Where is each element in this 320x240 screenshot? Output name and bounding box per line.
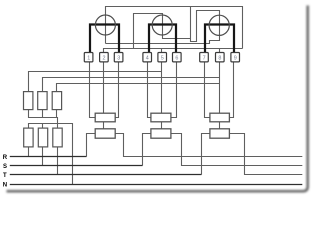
link block K3 (column 3 upper) bbox=[210, 113, 230, 122]
terminal 3 bbox=[114, 53, 123, 62]
wire: t8 drop to link-block 3 top bbox=[219, 62, 221, 113]
terminal 6 bbox=[173, 53, 182, 62]
svg-text:2: 2 bbox=[103, 55, 106, 61]
terminal 2 bbox=[100, 53, 109, 62]
wire: long horizontal y=43.5 from circle1 to staircase under circle3 bbox=[106, 35, 220, 43]
wire: load1 left lead to R bus end bbox=[87, 134, 96, 157]
wire: vertical through circle 1 down to long horizontal y=43.5 bbox=[105, 15, 107, 43]
element 1 current loop t1-t3 bbox=[90, 25, 119, 53]
wire: vertical through circle 3 up to y=10.5 link bbox=[191, 7, 220, 42]
load block L2 (column 2 lower) bbox=[151, 129, 171, 138]
wire: vertical through circle 2 up to y=13.5, left, and down to y48 line bbox=[134, 14, 163, 49]
svg-text:3: 3 bbox=[117, 55, 120, 61]
bus S bbox=[10, 165, 143, 167]
wire: t4 drop to link-block 2 left bbox=[148, 62, 151, 118]
svg-text:4: 4 bbox=[146, 55, 149, 61]
terminal 5 bbox=[158, 53, 167, 62]
svg-text:6: 6 bbox=[175, 55, 178, 61]
wire: fan line F2 from fuse A2 to t8 drop bbox=[43, 78, 220, 92]
wire: t6 drop to link-block 2 right bbox=[171, 62, 177, 118]
wire: t3 drop to link-block 1 right bbox=[115, 62, 118, 118]
wire: t2 drop to link-block 1 top bbox=[103, 62, 105, 113]
wire: load2 left lead to S bus end bbox=[143, 134, 151, 166]
wire: lower fuse bottom stubs to R S T buses bbox=[28, 147, 30, 157]
terminal 9 bbox=[231, 53, 240, 62]
terminal 1 bbox=[84, 53, 93, 62]
bus N bbox=[10, 184, 303, 186]
wire: top bus y=6 from circle1 top to right drop bbox=[106, 7, 243, 49]
measuring element M2 bbox=[152, 15, 172, 35]
element 3 current loop t7-t9 bbox=[205, 25, 234, 53]
wire: fuse bottoms bus1 y=117.5 bbox=[29, 110, 58, 124]
wire: load2 right lead down and east at S level bbox=[171, 134, 302, 166]
wire: link vertical column 3 bbox=[219, 122, 221, 129]
element 2 current loop t4-t6 bbox=[149, 25, 176, 53]
wire: t5 stub to y48 line bbox=[161, 49, 163, 53]
wire: circle2 bottom y=38.5 link to the x=190.5 drop bbox=[163, 35, 191, 39]
wire: t8 stub to y48 line bbox=[219, 49, 221, 53]
svg-text:7: 7 bbox=[203, 55, 206, 61]
fuse F2 (upper row) bbox=[38, 92, 47, 110]
wire: t5 drop to link-block 2 top bbox=[161, 62, 163, 113]
wire: link vertical column 2 bbox=[161, 122, 163, 129]
link block K2 (column 2 upper) bbox=[151, 113, 171, 122]
measuring element M1 bbox=[95, 15, 115, 35]
load block L1 (column 1 lower) bbox=[95, 129, 115, 138]
svg-text:R: R bbox=[3, 155, 8, 161]
fuse F6 (lower row) bbox=[53, 128, 62, 147]
svg-text:5: 5 bbox=[161, 55, 164, 61]
fuse F3 (upper row) bbox=[52, 92, 61, 110]
bus T bbox=[10, 174, 202, 176]
wire: link vertical block1-block2 column 1 bbox=[103, 122, 105, 129]
svg-text:8: 8 bbox=[218, 55, 221, 61]
measuring element M3 bbox=[209, 15, 229, 35]
wire: y=48.5 horizontal from t2 to right drop bbox=[104, 49, 243, 53]
terminal 4 bbox=[143, 53, 152, 62]
link block K1 (column 1 upper) bbox=[95, 113, 115, 122]
wire: t9 drop to link-block 3 right bbox=[229, 62, 233, 118]
bus R bbox=[10, 156, 87, 158]
fuse F4 (lower row) bbox=[24, 128, 33, 147]
wire: fan line F1 from fuse A1 to t5 drop bbox=[29, 72, 162, 92]
terminal 8 bbox=[216, 53, 225, 62]
terminal 7 bbox=[200, 53, 209, 62]
wire: fan line F3 from fuse A3 to t8 drop bbox=[57, 84, 220, 92]
fuse F5 (lower row) bbox=[38, 128, 47, 147]
svg-text:S: S bbox=[3, 164, 7, 170]
svg-text:1: 1 bbox=[87, 55, 90, 61]
wire: load3 left lead to T bus end bbox=[202, 134, 210, 175]
svg-text:N: N bbox=[3, 182, 7, 188]
fuse F1 (upper row) bbox=[24, 92, 33, 110]
image frame border (right + bottom shadow) bbox=[7, 6, 308, 192]
wire: load1 right lead down and east at R level bbox=[115, 134, 302, 157]
load block L3 (column 3 lower) bbox=[210, 129, 230, 138]
svg-text:9: 9 bbox=[234, 55, 237, 61]
wire: t7 drop to link-block 3 left bbox=[205, 62, 210, 118]
wire: bus2 y=123.5 over lower fuse row, to long drop x=72.5 bbox=[29, 124, 73, 185]
svg-text:T: T bbox=[3, 173, 7, 179]
wire: t1 drop to link-block 1 left bbox=[90, 62, 96, 118]
wire: load3 right lead down and east at T level bbox=[229, 134, 302, 175]
